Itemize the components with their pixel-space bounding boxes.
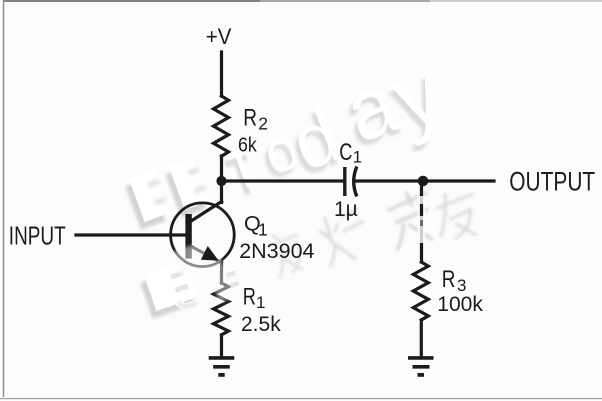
svg-text:100k: 100k	[437, 293, 483, 316]
svg-text:INPUT: INPUT	[9, 222, 66, 250]
svg-text:1: 1	[353, 147, 362, 166]
svg-text:2: 2	[258, 113, 268, 133]
svg-text:R: R	[243, 103, 257, 131]
svg-text:1: 1	[256, 293, 265, 312]
svg-text:R: R	[442, 265, 456, 293]
svg-text:+V: +V	[206, 24, 232, 49]
svg-text:2N3904: 2N3904	[239, 239, 314, 263]
svg-text:2.5k: 2.5k	[241, 313, 281, 336]
svg-text:1: 1	[258, 220, 268, 240]
svg-text:6k: 6k	[238, 134, 257, 157]
svg-text:OUTPUT: OUTPUT	[509, 167, 595, 197]
svg-text:1µ: 1µ	[334, 198, 358, 221]
svg-text:R: R	[243, 283, 256, 310]
svg-text:C: C	[339, 138, 352, 165]
